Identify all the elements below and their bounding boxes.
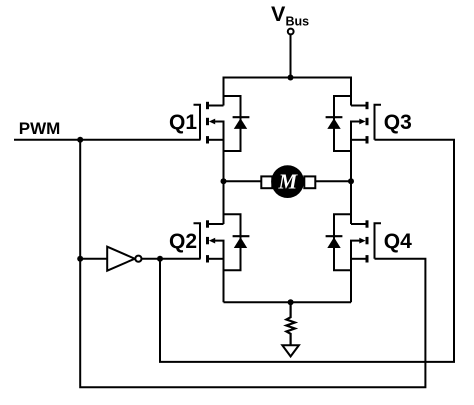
transistor Q3 source stub bbox=[351, 139, 367, 141]
transistor Q2 body stub and source down to bottom rail bbox=[215, 241, 224, 303]
transistor Q2 source stub bbox=[208, 258, 224, 260]
wire: inverter output to Q2 gate bbox=[142, 258, 201, 260]
terminal: V_Bus open circle bbox=[288, 29, 294, 35]
transistor Q4 source stub bbox=[351, 258, 367, 260]
wire: PWM loop down, along bottom, up to Q4 gate bbox=[80, 140, 425, 387]
svg-text:Q4: Q4 bbox=[384, 230, 412, 253]
transistor Q4 channel segments bbox=[366, 220, 369, 262]
transistor Q3 body arrow bbox=[359, 119, 365, 125]
junction: bottom rail / sense resistor bbox=[288, 299, 294, 305]
wire: V_Bus feed bbox=[290, 35, 292, 78]
transistor Q1 drain stub bbox=[208, 105, 224, 107]
wire: motor rail bbox=[224, 180, 352, 182]
diode (Q4 body diode) cathode bar bbox=[326, 235, 343, 237]
transistor Q4 drain stub bbox=[351, 223, 367, 225]
junction: inverter input branch bbox=[77, 256, 83, 262]
transistor Q3 drain stub bbox=[351, 105, 367, 107]
transistor Q1 body arrow bbox=[209, 119, 215, 125]
wire: PWM input to Q1 gate bbox=[14, 139, 201, 141]
svg-text:Q3: Q3 bbox=[384, 111, 412, 134]
junction: motor rail right bbox=[348, 178, 354, 184]
inverter U1 triangle bbox=[107, 247, 135, 271]
diode (Q4 body diode) connection loop bbox=[334, 214, 351, 270]
motor M1 left terminal bbox=[261, 176, 272, 188]
transistor Q2 channel segments bbox=[206, 220, 209, 262]
diode (Q2 body diode) cathode bar bbox=[233, 235, 250, 237]
diode (Q1 body diode) connection loop bbox=[224, 96, 241, 151]
diode (Q3 body diode) cathode bar bbox=[326, 116, 343, 118]
svg-text:Bus: Bus bbox=[286, 15, 310, 29]
junction: V_Bus / top rail bbox=[288, 75, 294, 81]
transistor Q1 source stub bbox=[208, 139, 224, 141]
motor M1 right terminal bbox=[304, 176, 315, 188]
transistor Q2 drain stub bbox=[208, 223, 224, 225]
transistor Q4 body arrow bbox=[359, 238, 365, 244]
wire: top rail with drain drops bbox=[224, 78, 352, 106]
diode (Q1 body diode) cathode bar bbox=[233, 116, 250, 118]
junction: PWM branch bbox=[77, 137, 83, 143]
wire: inverted signal loop down, along bottom, up to Q3 gate bbox=[160, 140, 454, 362]
diode (Q3 body diode) triangle bbox=[327, 118, 340, 129]
wire: inverter input bbox=[80, 258, 107, 260]
inverter U1 bubble bbox=[135, 256, 141, 262]
junction: inverter output branch bbox=[157, 256, 163, 262]
ground bbox=[282, 345, 299, 356]
svg-text:M: M bbox=[277, 169, 298, 193]
wire: Q2 drain drop from motor rail bbox=[223, 181, 225, 224]
transistor Q4 gate bbox=[375, 223, 382, 259]
diode (Q1 body diode) triangle bbox=[234, 118, 247, 129]
diode (Q2 body diode) connection loop bbox=[224, 214, 241, 270]
transistor Q3 gate bbox=[375, 105, 382, 140]
transistor Q4 body stub and source down to bottom rail bbox=[351, 241, 360, 303]
transistor Q3 channel segments bbox=[366, 102, 369, 144]
transistor Q2 gate bbox=[194, 223, 201, 259]
resistor R1 (sense) lead and zigzag bbox=[286, 302, 295, 345]
diode (Q4 body diode) triangle bbox=[327, 237, 340, 248]
diode (Q2 body diode) triangle bbox=[234, 237, 247, 248]
svg-text:Q2: Q2 bbox=[169, 230, 197, 253]
junction: motor rail left bbox=[221, 178, 227, 184]
transistor Q1 body stub and source down to motor rail bbox=[215, 122, 224, 182]
transistor Q2 body arrow bbox=[209, 238, 215, 244]
wire: bottom rail between Q2 and Q4 sources bbox=[224, 301, 352, 303]
transistor Q1 channel segments bbox=[206, 102, 209, 144]
transistor Q1 gate bbox=[194, 105, 201, 140]
diode (Q3 body diode) connection loop bbox=[334, 96, 351, 151]
svg-text:Q1: Q1 bbox=[169, 111, 197, 134]
svg-text:PWM: PWM bbox=[19, 119, 61, 138]
wire: Q4 drain drop from motor rail bbox=[350, 181, 352, 224]
motor M1 body bbox=[271, 165, 304, 198]
transistor Q3 body stub and source down to motor rail bbox=[351, 122, 360, 182]
svg-text:V: V bbox=[271, 2, 286, 26]
